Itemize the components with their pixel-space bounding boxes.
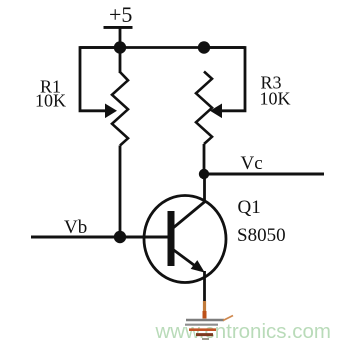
wire: collector up to Vc node [203, 174, 206, 203]
wire: ground lead (discoloured) [203, 301, 206, 311]
node Vc junction dot [199, 169, 209, 179]
node Vb junction dot [114, 231, 126, 243]
svg-text:+5: +5 [109, 2, 132, 27]
wire: top rail [80, 46, 245, 49]
node: junction dot right (R3 top) [198, 41, 210, 53]
+5 supply terminal bar [104, 26, 133, 29]
svg-text:Vb: Vb [64, 217, 87, 238]
ground bar 4 [196, 333, 213, 336]
resistor R3 zigzag body (potentiometer) [196, 72, 212, 145]
svg-text:Vc: Vc [241, 153, 263, 174]
wire: R1 wiper loop (left side) [80, 48, 120, 111]
transistor Q1 base bar [168, 211, 175, 266]
resistor R1 zigzag body (potentiometer) [112, 72, 128, 146]
ground bar 3 [189, 328, 216, 331]
ground bar 2 [185, 324, 218, 326]
transistor Q1 emitter arrow [191, 260, 205, 273]
svg-text:www.cntronics.com: www.cntronics.com [155, 320, 331, 343]
wire: R1 bottom to Vb node [119, 146, 122, 238]
wire: ground lead lower part [203, 311, 207, 319]
transistor Q1 collector diagonal [173, 202, 205, 229]
wire: Vb input [31, 236, 168, 239]
R1 wiper arrow [105, 104, 117, 119]
svg-text:S8050: S8050 [237, 225, 286, 246]
wire: Vc output [204, 173, 324, 176]
ground bar 1 orange tick [223, 316, 233, 321]
ground bar 5 [202, 338, 209, 340]
transistor Q1 circle [144, 196, 226, 283]
wire: R3 bottom to Vc node [203, 144, 206, 174]
node: junction dot left (R1 top) [114, 41, 126, 53]
wire: emitter down to ground [203, 271, 206, 302]
ground bar 1 [186, 319, 224, 321]
wire: R3 wiper loop (right side) [204, 48, 245, 111]
transistor Q1 emitter diagonal [173, 250, 200, 270]
svg-text:10K: 10K [260, 89, 291, 109]
R3 wiper arrow [210, 104, 222, 119]
svg-text:10K: 10K [35, 91, 66, 111]
svg-text:Q1: Q1 [238, 197, 261, 218]
wire: +5 bar down to top rail [119, 28, 122, 73]
